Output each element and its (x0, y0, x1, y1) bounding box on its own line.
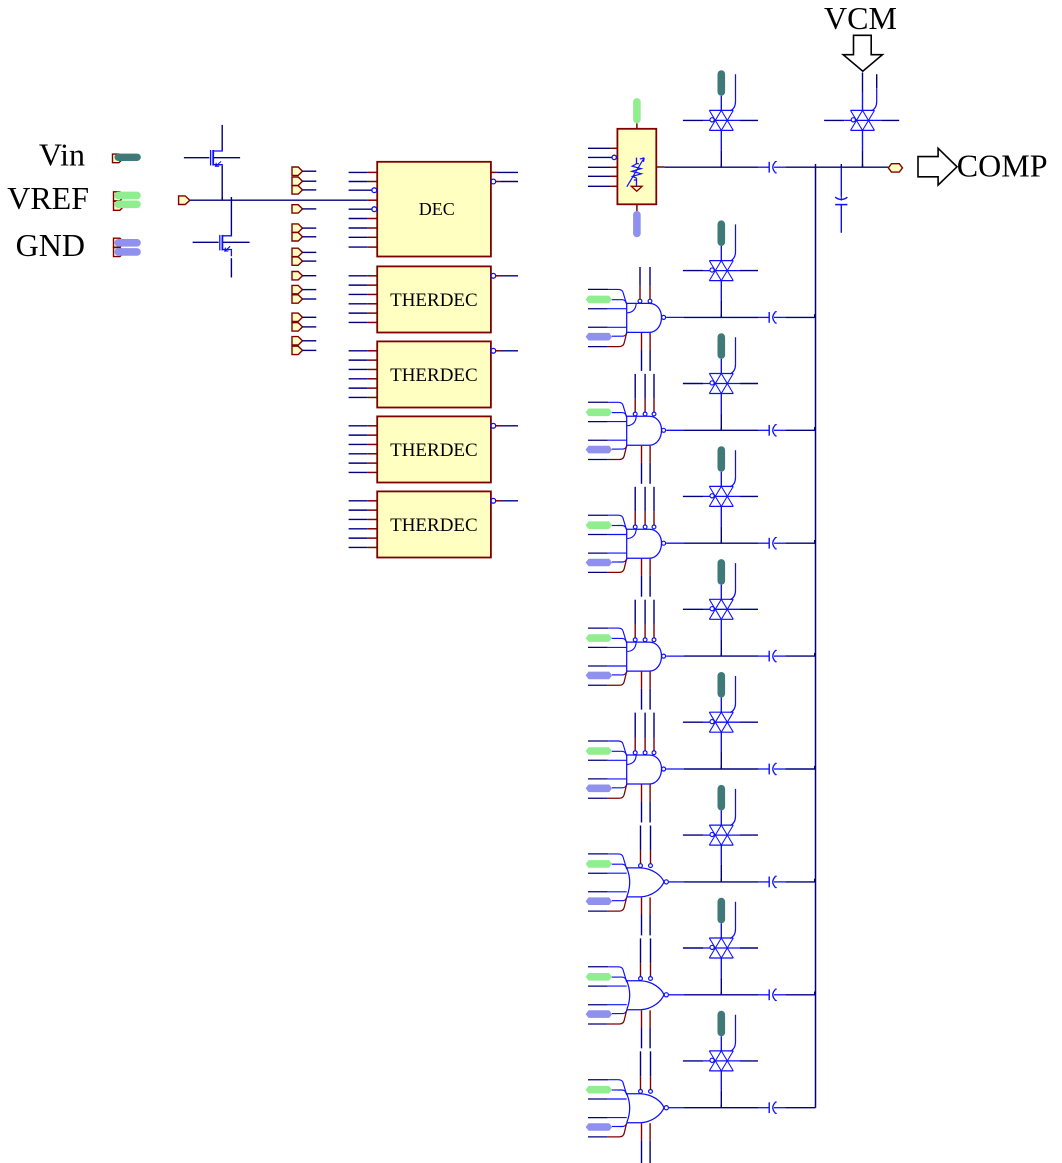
gate G4 NAND (627, 642, 666, 671)
U6 left pins (588, 148, 617, 186)
net label Vin (39, 136, 85, 172)
net label VREF (7, 180, 89, 216)
G4 input wires (588, 628, 627, 685)
wire row 2 (666, 427, 815, 430)
pin cap1 top (718, 70, 726, 111)
buffer pin b6 (292, 233, 316, 241)
pin VREF (pair) (114, 192, 141, 211)
G7 input wires (588, 967, 627, 1024)
block U5 THERDEC (377, 491, 491, 557)
G4 control lines bottom (642, 672, 651, 710)
capacitor C7 series (758, 763, 785, 774)
pin cap top row 8 (718, 1011, 726, 1051)
G4 control lines top (633, 600, 656, 642)
svg-text:THERDEC: THERDEC (390, 365, 478, 386)
pin cap top row 6 (718, 785, 726, 826)
G5 input pills (586, 747, 613, 792)
switch S6 (683, 676, 758, 769)
G5 control lines bottom (642, 785, 651, 823)
pin GND resistor bottom (633, 204, 641, 237)
svg-text:THERDEC: THERDEC (390, 290, 478, 311)
THERDEC1 output pin (491, 273, 518, 278)
G3 control lines top (633, 487, 656, 529)
pin COMP (888, 164, 902, 172)
G1 input pills (586, 296, 613, 341)
buffer pin b3 (292, 186, 316, 194)
wire row 5 (666, 766, 815, 769)
block U1 DEC (377, 162, 491, 257)
block U2 THERDEC (377, 266, 491, 332)
THERDEC2 output pin (491, 348, 518, 353)
G6 input pills (586, 860, 613, 905)
buffer pin b14 (292, 337, 316, 345)
THERDEC4 input pins (349, 501, 378, 548)
G8 control lines bottom (642, 1123, 651, 1163)
pin VREF resistor top (633, 98, 641, 129)
svg-text:THERDEC: THERDEC (390, 515, 478, 536)
switch S1 (683, 74, 758, 167)
gate G6 NOR (627, 868, 669, 897)
G1 control lines bottom (642, 333, 651, 371)
G8 input wires (588, 1080, 627, 1137)
wire row 4 (666, 653, 815, 656)
switch S4 (683, 450, 758, 543)
pin cap top row 1 (718, 220, 726, 261)
gate G2 NAND (627, 416, 666, 445)
U6 output pin stub (656, 166, 664, 168)
wire row 8 (669, 1105, 816, 1108)
svg-text:VCM: VCM (824, 0, 897, 36)
capacitor C8 series (758, 876, 785, 887)
G7 control lines top (639, 938, 653, 980)
net label VCM (824, 0, 897, 36)
wire COMP net (664, 164, 888, 167)
gate G7 NOR (627, 981, 669, 1010)
wire row 7 (669, 992, 816, 995)
DEC input pins (349, 172, 378, 247)
switch S8 (683, 902, 758, 995)
switch S9 (683, 1015, 758, 1108)
wire row 3 (666, 540, 815, 543)
buffer pin b8 (292, 257, 316, 265)
pin Vin (113, 154, 141, 163)
wire row 1 (666, 314, 815, 317)
G8 control lines top (639, 1051, 653, 1093)
capacitor C6 series (758, 650, 785, 661)
buffer pin b4 (292, 205, 316, 213)
block U3 THERDEC (377, 341, 491, 407)
buffer pin b1 (292, 167, 316, 175)
pin cap top row 5 (718, 672, 726, 713)
gate G8 NOR (627, 1094, 669, 1123)
buffer pin b10 (292, 285, 316, 293)
svg-text:GND: GND (16, 227, 85, 263)
gate G1 NAND (627, 303, 666, 332)
G6 control lines top (639, 826, 653, 868)
capacitor C9 series (758, 989, 785, 1000)
G2 input pills (586, 409, 613, 454)
G5 input wires (588, 741, 627, 798)
wire VCM to switch (862, 73, 864, 111)
G7 control lines bottom (642, 1010, 651, 1048)
capacitor C3 series (758, 312, 785, 323)
port arrow COMP (918, 148, 957, 185)
G5 control lines top (633, 713, 656, 755)
buffer pin b11 (292, 295, 316, 303)
port arrow VCM (843, 35, 882, 71)
THERDEC1 input pins (349, 276, 378, 323)
svg-text:Vin: Vin (39, 136, 85, 172)
svg-text:VREF: VREF (7, 180, 89, 216)
net label COMP (957, 148, 1048, 184)
wire bus vertical (815, 167, 817, 1107)
buffer pin b5 (292, 224, 316, 232)
switch S5 (683, 563, 758, 656)
pin VIN input (179, 196, 190, 205)
G3 input pills (586, 521, 613, 566)
gate G5 NAND (627, 755, 666, 784)
buffer pin b2 (292, 177, 316, 185)
DEC output pins (491, 172, 518, 184)
capacitor C5 series (758, 538, 785, 549)
svg-text:COMP: COMP (957, 148, 1048, 184)
G4 input pills (586, 634, 613, 679)
G3 input wires (588, 515, 627, 572)
buffer pin b15 (292, 346, 316, 354)
block U6 variable resistor (617, 129, 656, 205)
net label GND (16, 227, 85, 263)
gate G3 NAND (627, 529, 666, 558)
THERDEC4 output pin (491, 498, 518, 503)
G1 control lines top (638, 267, 652, 303)
buffer pin b7 (292, 248, 316, 256)
pin cap top row 2 (718, 333, 726, 374)
svg-text:THERDEC: THERDEC (390, 440, 478, 461)
transistor M1 (184, 125, 240, 199)
buffer pin b13 (292, 323, 316, 331)
pin cap top row 7 (718, 898, 726, 939)
wire row 6 (669, 879, 816, 882)
block U4 THERDEC (377, 416, 491, 482)
switch S7 (683, 789, 758, 882)
switch S10 VCM (824, 74, 899, 167)
wire VIN to DEC (190, 197, 377, 200)
svg-text:DEC: DEC (419, 199, 455, 219)
switch S2 (683, 224, 758, 317)
pin cap top row 4 (718, 559, 726, 600)
G2 control lines bottom (642, 446, 651, 484)
pin cap top row 3 (718, 446, 726, 487)
switch S3 (683, 337, 758, 430)
G1 input wires (588, 289, 627, 346)
G3 control lines bottom (642, 559, 651, 597)
capacitor C1 (series) (758, 162, 785, 173)
capacitor C4 series (758, 425, 785, 436)
capacitor C2 (shunt) (835, 167, 847, 233)
THERDEC3 output pin (491, 423, 518, 428)
THERDEC2 input pins (349, 351, 378, 398)
G8 input pills (586, 1086, 613, 1131)
pin GND (pair) (114, 238, 141, 256)
capacitor C10 series (758, 1102, 785, 1113)
buffer pin b9 (292, 272, 316, 280)
G6 control lines bottom (642, 897, 651, 935)
G2 control lines top (633, 374, 656, 416)
transistor M2 (193, 201, 250, 278)
buffer pin b12 (292, 313, 316, 321)
G2 input wires (588, 402, 627, 459)
G6 input wires (588, 854, 627, 911)
THERDEC3 input pins (349, 426, 378, 473)
G7 input pills (586, 973, 613, 1018)
